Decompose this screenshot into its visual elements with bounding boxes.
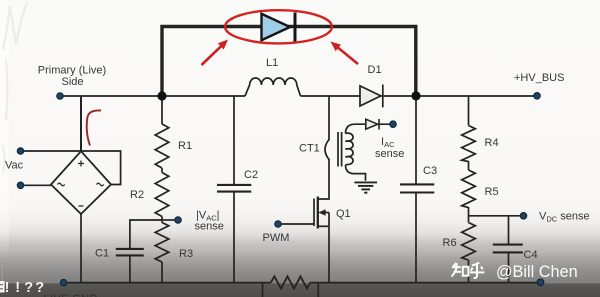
diode D2 (IAC sense) — [366, 119, 391, 130]
wire CT1/Q1 branch — [318, 96, 329, 199]
terminal Vac bottom — [17, 182, 24, 189]
shunt stub right — [317, 283, 319, 297]
svg-text:LIVE GND: LIVE GND — [44, 293, 98, 297]
player bar dark zone — [0, 283, 600, 297]
svg-text:R5: R5 — [485, 186, 499, 198]
svg-text:R2: R2 — [130, 189, 144, 201]
terminal VAC sense — [175, 217, 182, 224]
shunt stub left — [262, 283, 264, 297]
capacitor C3 — [400, 184, 434, 192]
left page-edge strip — [0, 0, 9, 258]
junction node (D1 / C3) — [411, 91, 420, 100]
wire C4 branch — [508, 216, 510, 283]
terminal IAC sense — [390, 121, 397, 128]
wire bridge - output to ground rail — [80, 214, 82, 283]
main HV rail wire — [60, 95, 537, 97]
svg-text:sense: sense — [195, 221, 224, 233]
terminal ground rail right — [537, 279, 544, 286]
watermark zhihu glyph hu — [470, 263, 485, 279]
wire C1 branch — [130, 220, 162, 283]
transformer CT1 primary — [325, 140, 329, 160]
svg-text:?: ? — [24, 280, 33, 296]
wire Q1 source to ground rail — [328, 226, 330, 283]
svg-text:sense: sense — [375, 148, 404, 160]
wire bridge + output riser — [80, 96, 82, 151]
svg-text:C1: C1 — [95, 248, 109, 260]
red ellipse annotation — [225, 10, 332, 43]
svg-text:PWM: PWM — [263, 232, 290, 244]
red arrow right — [331, 42, 359, 65]
wire vac bottom to bridge — [21, 184, 52, 186]
resistor R4 — [462, 126, 476, 162]
svg-text:L1: L1 — [266, 57, 278, 69]
capacitor C2 — [217, 185, 251, 192]
inductor L1 — [245, 78, 301, 96]
watermark zhihu glyph zhi — [452, 263, 469, 277]
transistor Q1 — [279, 197, 330, 229]
svg-text:Q1: Q1 — [336, 208, 351, 220]
svg-text:Primary (Live): Primary (Live) — [38, 64, 106, 76]
svg-text:+HV_BUS: +HV_BUS — [514, 72, 564, 84]
resistor R1 — [155, 124, 169, 168]
svg-text:D1: D1 — [368, 64, 382, 76]
svg-text:Side: Side — [61, 76, 83, 88]
svg-text:R6: R6 — [443, 237, 457, 249]
svg-text:@Bill Chen: @Bill Chen — [496, 263, 578, 281]
red squiggle annotation — [87, 110, 101, 145]
red arrow left — [202, 40, 229, 66]
shunt resistor (ground rail) — [271, 276, 310, 288]
ground symbol — [354, 182, 377, 192]
junction node (R1 / thick wire) — [157, 91, 166, 100]
svg-text:R4: R4 — [485, 137, 499, 149]
Q1 body arrow — [318, 209, 325, 216]
bridge rectifier BR1 — [51, 151, 111, 214]
terminal PWM — [275, 221, 282, 228]
circled diode (top, highlighted) — [262, 13, 296, 43]
wire R1 branch stubs — [161, 96, 163, 283]
svg-text:Vac: Vac — [5, 160, 24, 172]
subtitle fragment !!?? — [0, 265, 44, 296]
transformer CT1 secondary — [346, 133, 354, 165]
svg-text:C4: C4 — [524, 249, 538, 261]
svg-text:CT1: CT1 — [299, 143, 320, 155]
wire secondary top to IAC diode — [346, 124, 366, 133]
transformer CT1 core — [338, 132, 342, 167]
wire C3 branch — [415, 96, 417, 283]
svg-text:C2: C2 — [244, 169, 258, 181]
terminal HV BUS — [534, 93, 541, 100]
terminal ground rail left — [60, 279, 66, 285]
wire C2 branch — [233, 96, 235, 283]
resistor R3 — [155, 223, 169, 263]
faint corner watermark strokes — [2, 2, 27, 172]
svg-text:R3: R3 — [179, 248, 193, 260]
ground rail — [64, 282, 541, 284]
terminal Primary side — [57, 93, 64, 100]
thick bypass wire (circled diode branch) — [162, 27, 416, 97]
wire vac top to bridge — [21, 151, 121, 185]
wire secondary bottom to ground — [346, 165, 366, 181]
capacitor C4 — [493, 245, 523, 253]
svg-text:!: ! — [15, 280, 20, 296]
wire R4 chain stubs — [468, 96, 470, 283]
resistor R5 — [462, 170, 476, 208]
wire VAC sense stub — [162, 219, 176, 221]
terminal Vac top — [17, 148, 24, 155]
diode D1 — [360, 85, 383, 108]
resistor R6 — [462, 223, 476, 261]
svg-text:R1: R1 — [178, 140, 192, 152]
wire VDC sense — [469, 215, 522, 217]
terminal VDC sense — [520, 213, 527, 220]
resistor R2 — [155, 173, 169, 217]
capacitor C1 — [116, 249, 144, 256]
svg-text:C3: C3 — [423, 165, 437, 177]
svg-text:!: ! — [5, 280, 10, 296]
svg-text:?: ? — [35, 280, 44, 296]
